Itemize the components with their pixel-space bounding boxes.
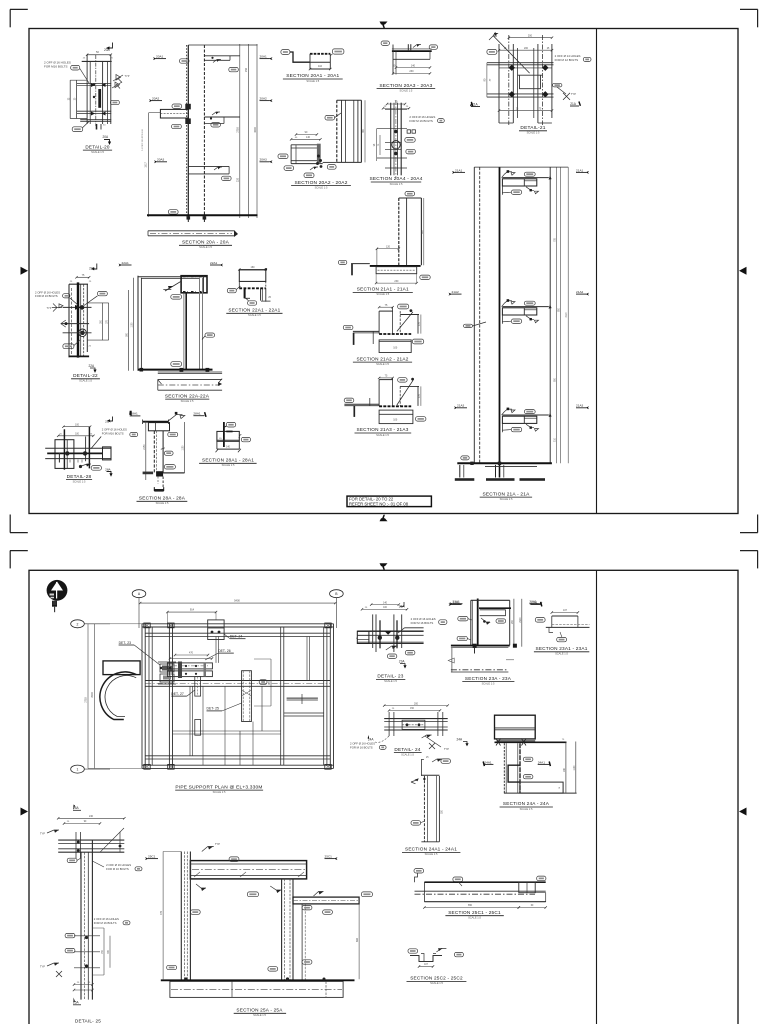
detail-28 bolt blobs bbox=[65, 451, 69, 455]
svg-text:TYP: TYP bbox=[571, 93, 576, 96]
svg-text:SCALE 1:5: SCALE 1:5 bbox=[376, 362, 389, 366]
section 21A3 left callout bbox=[344, 398, 354, 402]
section 20A4 left dims bbox=[376, 128, 378, 161]
svg-text:160: 160 bbox=[251, 266, 256, 269]
svg-text:25C1: 25C1 bbox=[325, 855, 333, 859]
detail-28 heavy verticals bbox=[63, 429, 65, 469]
section 20A mid bracket weld bbox=[212, 112, 220, 115]
section 21A1 mid dim bbox=[377, 248, 399, 250]
detail-23 note underline leader bbox=[405, 627, 424, 629]
svg-text:SECTION 21A1 - 21A1: SECTION 21A1 - 21A1 bbox=[357, 287, 409, 292]
section 22A bottom bolt squares bbox=[140, 368, 144, 372]
svg-text:DET- 27: DET- 27 bbox=[171, 692, 184, 696]
section 24A1 column bbox=[423, 776, 425, 842]
section 21A base ticks bbox=[470, 462, 473, 465]
svg-text:SECTION 21A2 - 21A2: SECTION 21A2 - 21A2 bbox=[357, 356, 409, 361]
section 25A weld mid left bbox=[196, 884, 206, 888]
section 25C1 bottom dim bbox=[424, 907, 518, 909]
sheet 1 corner mark bottom-right bbox=[757, 515, 759, 533]
svg-text:21A2: 21A2 bbox=[576, 290, 584, 294]
detail-23 left end plate bbox=[357, 631, 369, 643]
svg-text:TYP: TYP bbox=[444, 748, 449, 751]
section 21A bracket weld flag bottom bbox=[502, 409, 512, 415]
section 20A2 I-beam tall box bbox=[336, 100, 338, 162]
svg-text:120: 120 bbox=[386, 245, 391, 248]
svg-text:SECTION 28A - 28A: SECTION 28A - 28A bbox=[139, 496, 186, 501]
detail-22 right dim lines bbox=[102, 303, 104, 340]
plan bottom stub post bbox=[195, 720, 201, 736]
section 24A left column below bbox=[503, 743, 505, 793]
section 28A top plate heavy bbox=[143, 421, 169, 423]
svg-text:21A1: 21A1 bbox=[576, 168, 584, 172]
svg-text:SCALE 1:5: SCALE 1:5 bbox=[73, 479, 86, 483]
section 24A bottom line bbox=[504, 792, 577, 794]
svg-text:SCALE 1:5: SCALE 1:5 bbox=[399, 88, 412, 92]
svg-text:24A1: 24A1 bbox=[538, 760, 546, 764]
svg-text:FOR M16 BOLTS: FOR M16 BOLTS bbox=[102, 431, 124, 435]
svg-text:SECTION 20A - 20A: SECTION 20A - 20A bbox=[182, 240, 230, 246]
detail-23 top dim 140 bbox=[371, 604, 399, 606]
detail-20 pill bottom leader bbox=[83, 122, 89, 128]
section 21A1 right dim vertical bbox=[423, 198, 425, 265]
section 21A3 left beam bbox=[344, 403, 379, 405]
svg-text:230: 230 bbox=[394, 280, 399, 283]
svg-text:23A: 23A bbox=[399, 660, 406, 664]
section 21A bracket lower weld bottom bbox=[526, 424, 534, 428]
plan inner thin verticals bbox=[202, 686, 204, 765]
section 22A pill below weld bbox=[171, 295, 182, 299]
section 20A3 top heavy plate bbox=[392, 50, 432, 52]
svg-text:20A2: 20A2 bbox=[260, 97, 268, 101]
section 21A3 diagonal bbox=[397, 381, 413, 406]
sheet 2 title block divider bbox=[596, 570, 598, 1024]
detail-28 hatch ticks bbox=[70, 460, 82, 463]
section 20A2 callout left2 bbox=[284, 166, 294, 171]
section 20A4 note callout bbox=[438, 119, 445, 123]
section 28A1 pill right bbox=[241, 437, 250, 441]
section 20A3 callout left bbox=[381, 41, 389, 45]
svg-text:1100: 1100 bbox=[574, 765, 576, 771]
section 23A base heavy bbox=[451, 645, 510, 647]
svg-text:140: 140 bbox=[306, 136, 311, 139]
detail-21 left dim vertical bbox=[486, 63, 488, 97]
section 20A base plate lines bbox=[148, 230, 234, 232]
svg-text:23A1: 23A1 bbox=[453, 600, 461, 604]
section 20A2 callout bottom bbox=[304, 173, 314, 178]
section 21A top edge bbox=[474, 166, 568, 168]
svg-text:660: 660 bbox=[356, 937, 359, 942]
svg-text:SCALE 1:5: SCALE 1:5 bbox=[527, 131, 540, 135]
detail-28 top dim 100 bbox=[63, 426, 90, 428]
sheet 1 corner mark top-left bbox=[10, 8, 28, 10]
section 28A1 box bbox=[217, 431, 239, 441]
section 28A1 flag line bbox=[224, 426, 226, 427]
svg-text:650: 650 bbox=[468, 904, 473, 907]
section 20A4 small squares bbox=[407, 130, 410, 133]
detail-24 beam horizontals bbox=[384, 718, 448, 720]
svg-text:22A: 22A bbox=[89, 364, 96, 368]
detail-21 vertical members bbox=[498, 44, 500, 123]
detail-20 pill bottom-left bbox=[72, 127, 83, 132]
section 25A weld typ top bbox=[202, 847, 214, 852]
section 20A top bracket callout bbox=[229, 67, 239, 71]
section 28A top box bbox=[148, 423, 169, 431]
plan column squares at corners bbox=[144, 623, 150, 628]
sheet 1 centering triangle right bbox=[739, 267, 747, 275]
section 24A bolt cross ticks bbox=[496, 739, 501, 746]
svg-text:SCALE 1:5: SCALE 1:5 bbox=[376, 433, 389, 437]
sheet 1 reference note box bbox=[347, 496, 431, 507]
section 20A top bracket plate bbox=[204, 55, 239, 57]
section 28A right dim vertical bbox=[184, 422, 186, 473]
section 22A pill lower mid bbox=[171, 362, 182, 367]
plan pipe rectangle top-left bbox=[103, 661, 140, 675]
svg-text:770: 770 bbox=[160, 910, 163, 915]
section 21A2 lower plate bbox=[379, 340, 411, 353]
detail-25 top beam verticals bbox=[75, 832, 77, 858]
section 24A top big box bbox=[495, 715, 536, 739]
svg-text:100: 100 bbox=[393, 347, 398, 350]
section 20A3 stub verticals bbox=[407, 44, 409, 51]
svg-text:SCALE 1:5: SCALE 1:5 bbox=[401, 752, 414, 756]
section 20A2 bottom line to beam bbox=[323, 161, 337, 163]
svg-text:240: 240 bbox=[89, 815, 94, 818]
section 22A top edge double bbox=[138, 276, 207, 278]
section 22A right double gray lines bbox=[199, 278, 201, 370]
detail-20 mid stiffener lines bbox=[77, 83, 112, 85]
svg-text:SECTION 23A1 - 23A1: SECTION 23A1 - 23A1 bbox=[536, 646, 588, 651]
section 25A left column bbox=[180, 852, 182, 982]
svg-text:SCALE 1:5: SCALE 1:5 bbox=[555, 652, 568, 656]
section 21A3 right callout bbox=[416, 417, 426, 421]
detail-20 note leader bbox=[80, 69, 89, 84]
section 21A bracket pill lower top bbox=[511, 190, 521, 194]
section 20A callout pills left side bbox=[180, 59, 190, 63]
detail-22 callout right leader bbox=[84, 296, 98, 306]
svg-text:SCALE 1:5: SCALE 1:5 bbox=[91, 150, 104, 154]
detail-21 U channel bbox=[518, 75, 543, 89]
section 20A2 hatched plate bbox=[317, 144, 321, 164]
svg-text:21A3: 21A3 bbox=[457, 404, 465, 408]
detail-25 bottom dims bbox=[74, 984, 92, 986]
plan outer frame double bottom bbox=[142, 764, 334, 766]
detail-22 callout bottom leader bbox=[74, 340, 80, 346]
section 20A4 bolt dots bbox=[394, 130, 398, 134]
section 21A2 right callout bbox=[412, 339, 423, 344]
section 21A1 right callout bbox=[420, 275, 430, 279]
detail-25 top bolt dots bbox=[77, 841, 80, 844]
svg-text:FOR M 16 BOLTS: FOR M 16 BOLTS bbox=[350, 745, 373, 749]
section 22A top right hatched box bbox=[181, 276, 207, 293]
svg-text:20A1: 20A1 bbox=[260, 55, 268, 59]
section 20A2 weld lower bbox=[310, 167, 318, 170]
detail-22 mid crossing bbox=[61, 323, 89, 325]
detail-24 weld symbols bbox=[422, 735, 432, 738]
section 25A bottom pills bbox=[167, 965, 177, 969]
section 20A mid callout right bbox=[211, 123, 221, 127]
section 20A top bracket weld bbox=[213, 60, 221, 63]
section 23A1 pill left bbox=[535, 618, 545, 623]
detail-20 note callout bbox=[71, 65, 80, 70]
section 21A3 right dim bbox=[420, 386, 422, 406]
svg-text:200: 200 bbox=[524, 47, 529, 50]
section 21A1 column bbox=[398, 198, 400, 265]
svg-text:SECTION 28A1 - 28A1: SECTION 28A1 - 28A1 bbox=[202, 458, 254, 463]
detail-28 left stub vertical bbox=[58, 453, 60, 463]
plan right side beam stub bbox=[287, 697, 318, 699]
plan det-24 box bbox=[208, 620, 224, 640]
section 23A1 pill bottom bbox=[557, 637, 567, 641]
section 20A2 left box bbox=[291, 144, 320, 146]
section 21A left flange lines bbox=[473, 167, 475, 463]
section 28A1 bottom end ticks bbox=[216, 449, 241, 453]
detail-24 dashed leader curve bbox=[375, 736, 389, 742]
section 25A top beam box bbox=[190, 861, 306, 879]
detail-22 upper crossing bbox=[63, 306, 92, 308]
section 24A bottom right box bbox=[520, 782, 563, 793]
svg-text:DET- 24: DET- 24 bbox=[230, 635, 243, 639]
section 21A right pedestal bar bbox=[485, 465, 537, 467]
svg-text:TYP: TYP bbox=[40, 966, 45, 969]
section 23A top box bbox=[471, 599, 510, 601]
svg-text:2750: 2750 bbox=[237, 127, 240, 133]
section 20A left beam box bbox=[160, 109, 188, 118]
svg-text:1150: 1150 bbox=[183, 445, 185, 451]
svg-text:FOR M 16 BOLTS: FOR M 16 BOLTS bbox=[106, 867, 129, 871]
section 20A lower plate callout bbox=[222, 176, 232, 180]
svg-text:SECTION 21A3 - 21A3: SECTION 21A3 - 21A3 bbox=[357, 427, 409, 432]
svg-text:SCALE 1:5: SCALE 1:5 bbox=[468, 916, 481, 920]
section 25C2 pill left bbox=[408, 949, 418, 953]
section 21A left pedestal bbox=[459, 465, 461, 478]
section 23A base stub vertical bbox=[474, 648, 476, 654]
section 24A flange heavy line bbox=[495, 741, 567, 743]
section 23A pill mid bbox=[496, 619, 506, 623]
svg-text:SCALE 1:5: SCALE 1:5 bbox=[376, 292, 389, 296]
section 20A main column left flange bbox=[187, 45, 189, 217]
svg-text:1: 1 bbox=[77, 768, 79, 772]
section 22A1 callout left bbox=[227, 288, 236, 292]
plan det-25 column right bbox=[242, 671, 252, 722]
section 25A left dim vertical bbox=[162, 852, 164, 980]
section 20A top edge bbox=[188, 44, 257, 46]
section 25C1 pill top-left bbox=[414, 869, 424, 873]
section 21A right dim verticals bbox=[555, 167, 557, 463]
plan small posts below beams bbox=[195, 677, 201, 697]
svg-text:140: 140 bbox=[411, 64, 416, 67]
plan left dim vertical bbox=[93, 624, 95, 769]
svg-text:2150: 2150 bbox=[144, 444, 146, 450]
detail-22 top dim 75 bbox=[77, 276, 90, 278]
section 25C1 right step bbox=[535, 893, 546, 902]
section 20A1 right pill leader bbox=[330, 54, 332, 55]
detail-21 typ weld right bbox=[557, 87, 566, 94]
section 24A1 pill left bbox=[411, 821, 421, 825]
section 25A second beam dashed bbox=[293, 897, 359, 904]
svg-text:20A3: 20A3 bbox=[157, 158, 165, 162]
section 21A bracket pill lower mid bbox=[511, 319, 521, 323]
section 22A1 left step thick bbox=[244, 288, 246, 298]
section 25C1 right end box bbox=[519, 882, 535, 893]
svg-text:SECTION 20A2 - 20A2: SECTION 20A2 - 20A2 bbox=[294, 180, 347, 186]
section 20A main column right flange dashed bbox=[203, 45, 205, 217]
section 20A1 callout right bbox=[332, 49, 344, 54]
section 20A base anchor ticks bbox=[187, 217, 189, 222]
svg-text:5400: 5400 bbox=[234, 599, 240, 603]
section 21A2 heavy dashed mid bbox=[379, 333, 411, 335]
svg-text:25C1: 25C1 bbox=[148, 855, 156, 859]
svg-text:250: 250 bbox=[245, 67, 248, 72]
section 25C2 weld top bbox=[436, 949, 446, 953]
section 25A middle column bbox=[281, 879, 283, 982]
svg-text:SCALE 1:5: SCALE 1:5 bbox=[384, 679, 397, 683]
svg-text:230: 230 bbox=[409, 70, 414, 73]
detail-20 column web lines bbox=[86, 55, 88, 124]
section 23A pills left bbox=[458, 617, 468, 621]
svg-text:DET- 23: DET- 23 bbox=[119, 641, 132, 645]
svg-text:SCALE 1:5: SCALE 1:5 bbox=[79, 379, 92, 383]
svg-text:SECTION 20A4 - 20A4: SECTION 20A4 - 20A4 bbox=[369, 176, 422, 182]
svg-text:SECTION 20A1 - 20A1: SECTION 20A1 - 20A1 bbox=[286, 73, 339, 79]
svg-text:21A1: 21A1 bbox=[455, 168, 463, 172]
plan pipe arc big bbox=[100, 672, 136, 720]
section 28A base dark segment bbox=[143, 472, 154, 475]
section 20A2 right dim vertical bbox=[364, 100, 366, 162]
plan top secondary beam bbox=[145, 632, 330, 634]
detail-21 top dim line bbox=[509, 37, 552, 39]
section 25C2 channel shape bbox=[410, 956, 442, 962]
detail-25 top beam horizontals bbox=[58, 839, 124, 841]
svg-text:100: 100 bbox=[75, 423, 80, 426]
section 28A below base dashes bbox=[162, 477, 164, 488]
detail-20 column bottom stub bbox=[96, 124, 98, 130]
detail-20 top plate bbox=[82, 60, 112, 62]
sheet 1 corner mark bottom-left bbox=[9, 515, 11, 533]
section 20A4 callout pills bbox=[405, 138, 415, 143]
section 28A small tick bbox=[161, 448, 165, 450]
section 21A2 top callout bbox=[398, 304, 409, 309]
detail-22 note leader bbox=[70, 298, 78, 305]
section 25A pill left column bbox=[190, 910, 200, 914]
svg-text:2: 2 bbox=[77, 622, 79, 626]
svg-text:SECTION 25C2 - 25C2: SECTION 25C2 - 25C2 bbox=[410, 976, 463, 981]
plan stanchion right pair bbox=[323, 627, 325, 765]
plan inner vertical members thin bbox=[189, 686, 191, 756]
svg-text:20A: 20A bbox=[104, 48, 111, 52]
detail-25 mid bolt dots bbox=[85, 936, 88, 939]
detail-21 weld flag top-left bbox=[489, 32, 497, 40]
svg-text:FOR M 16 BOLTS: FOR M 16 BOLTS bbox=[94, 921, 117, 925]
section 21A right flange bbox=[549, 167, 551, 463]
detail-28 pill lower bbox=[91, 466, 101, 471]
section 21A bracket lower weld top bbox=[526, 187, 534, 191]
svg-text:220: 220 bbox=[237, 177, 240, 182]
section 21A3 lower plate bbox=[379, 410, 413, 424]
svg-text:REFER SHEET NO :- 01 OF 08: REFER SHEET NO :- 01 OF 08 bbox=[349, 502, 409, 507]
plan stanchion mid-right pair bbox=[280, 627, 282, 765]
svg-text:140: 140 bbox=[383, 601, 388, 604]
section 20A2 callout right bbox=[327, 165, 336, 170]
section 22A1 callout bottom bbox=[248, 301, 257, 305]
detail-21 lower dim bbox=[499, 110, 552, 112]
section 20A4 column verticals bbox=[390, 103, 392, 176]
svg-text:SECTION 22A-22A: SECTION 22A-22A bbox=[165, 393, 210, 399]
section 21A bracket weld flag top bbox=[502, 172, 512, 178]
svg-text:SECTION 24A - 24A: SECTION 24A - 24A bbox=[503, 801, 550, 806]
section 22A bottom heavy line bbox=[138, 369, 213, 371]
svg-text:22A1: 22A1 bbox=[122, 261, 130, 265]
svg-text:SECTION 21A - 21A: SECTION 21A - 21A bbox=[482, 491, 530, 497]
section 20A4 cross horizontals bbox=[385, 109, 407, 111]
svg-text:SECTION 25A - 25A: SECTION 25A - 25A bbox=[236, 1008, 283, 1013]
section 20A lower plate bbox=[188, 165, 229, 167]
section 21A1 bottom dim 230 bbox=[376, 282, 417, 284]
section 24A right dim verticals bbox=[565, 742, 567, 794]
section 20A left beam bolt blocks bbox=[185, 104, 191, 110]
section 25C1 left step bbox=[415, 873, 418, 882]
section 20A3 bottom lines bbox=[393, 58, 430, 60]
section 22A1 top dim 160 bbox=[239, 268, 265, 270]
detail-25 pills mid left bbox=[65, 933, 75, 937]
detail-24 top dim 200 bbox=[384, 705, 448, 707]
svg-text:28A1: 28A1 bbox=[193, 412, 201, 416]
svg-text:100: 100 bbox=[393, 419, 398, 422]
sheet 1 centering triangle left bbox=[21, 267, 29, 275]
section 28A bottom angle bracket bbox=[154, 487, 163, 490]
section 24A1 top angle bbox=[421, 760, 424, 776]
section 20A4 top dim bbox=[387, 103, 405, 105]
plan stanchion mid-left pair bbox=[168, 624, 170, 769]
svg-text:TYP: TYP bbox=[125, 75, 130, 78]
plan top dim 5400 bbox=[140, 602, 335, 604]
detail-23 bolt blobs bbox=[378, 636, 382, 640]
section 25A pills centre bbox=[302, 906, 312, 910]
svg-text:DET- 26: DET- 26 bbox=[218, 649, 231, 653]
section 22A base plate box bbox=[158, 378, 222, 380]
section 24A1 weld top bbox=[432, 759, 442, 762]
section 21A1 left callout bbox=[338, 260, 346, 264]
plan centre beam end plates bbox=[178, 662, 182, 679]
plan pill right of det25 column bbox=[259, 680, 267, 685]
plan outer frame double top bbox=[142, 623, 334, 625]
svg-text:21A: 21A bbox=[570, 102, 577, 106]
svg-text:DETAIL- 24: DETAIL- 24 bbox=[394, 747, 420, 752]
section 21A bracket weld flag mid bbox=[502, 301, 512, 307]
detail-24 inner dashed plate bbox=[402, 720, 425, 729]
section 21A1 top callout bbox=[405, 192, 415, 196]
section 22A1 lower dashed heavy bbox=[239, 287, 265, 289]
svg-text:28A: 28A bbox=[105, 468, 111, 472]
detail-21 bolt symbols bbox=[509, 65, 515, 71]
svg-text:2900: 2900 bbox=[91, 692, 94, 698]
svg-text:20A2: 20A2 bbox=[152, 97, 160, 101]
svg-text:200: 200 bbox=[528, 34, 533, 37]
section 25C1 pill top-right bbox=[537, 876, 546, 881]
section 21A1 lower plate bbox=[376, 267, 417, 274]
section 22A pill right mid bbox=[205, 333, 215, 337]
svg-text:200: 200 bbox=[414, 702, 419, 705]
detail-20 heavy gusset plate bbox=[98, 89, 101, 108]
svg-text:2900: 2900 bbox=[520, 617, 522, 623]
detail-22 weld typ left bbox=[52, 304, 62, 312]
section 20A2 left top dims bbox=[296, 134, 317, 136]
detail-22 column verticals bbox=[68, 284, 70, 357]
plan bottom secondary beam bbox=[145, 755, 330, 757]
plan grid bubble A bbox=[132, 590, 146, 598]
plan right dim vertical 770 bbox=[270, 659, 272, 706]
section 25C1 beam top line bbox=[424, 881, 545, 883]
section 22A weld flag top bbox=[165, 281, 182, 291]
